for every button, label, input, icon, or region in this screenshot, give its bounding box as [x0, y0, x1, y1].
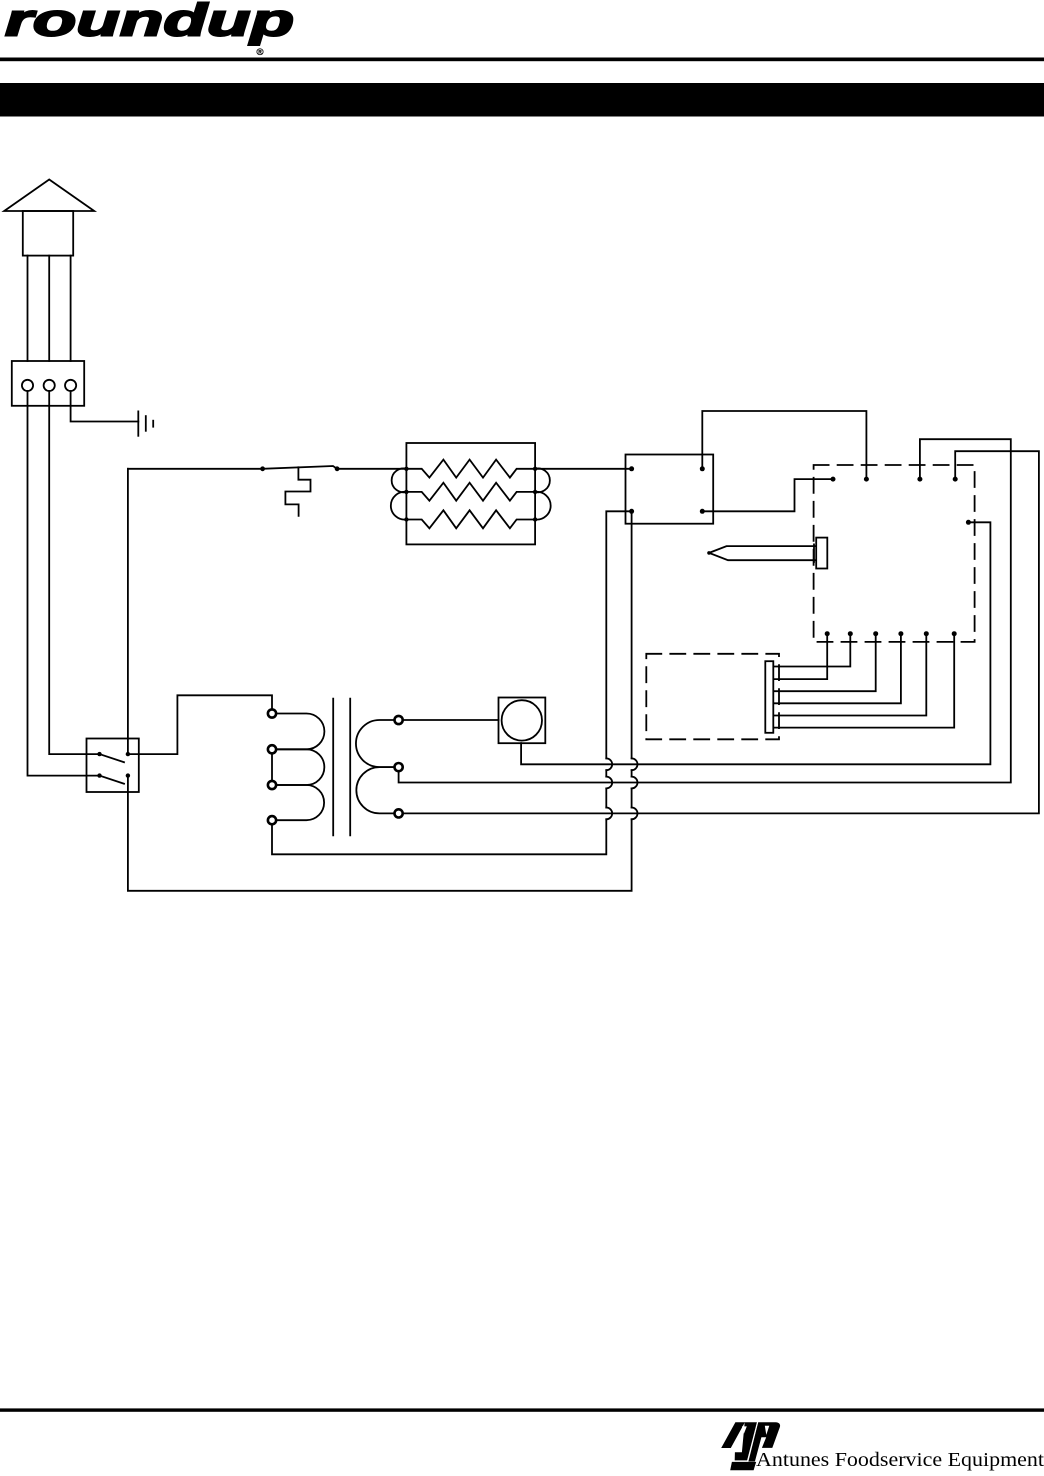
- node switch lower left: [97, 773, 101, 777]
- transformer core: [332, 699, 334, 836]
- wire switch to transformer primary: [128, 695, 272, 754]
- hop 2b: [632, 777, 638, 789]
- hi-limit step element: [285, 467, 310, 516]
- igniter mount: [816, 538, 827, 569]
- svg-text:Antunes Foodservice Equipment: Antunes Foodservice Equipment: [756, 1449, 1044, 1471]
- switch blade lower: [100, 776, 125, 784]
- heater right loop 2-3: [535, 492, 551, 520]
- wire fan to bus1: [521, 522, 990, 764]
- node board bottom 4: [898, 631, 903, 636]
- igniter blade: [709, 546, 816, 560]
- node board pin2: [864, 477, 869, 482]
- primary coil loop 1: [276, 714, 324, 750]
- heater element 2: [406, 483, 535, 501]
- node thermostat left: [260, 466, 265, 471]
- contactor K1 box: [626, 455, 714, 524]
- junction dots: [97, 466, 971, 778]
- node heater left row2: [404, 490, 408, 494]
- wire contactor BL left then down to transformer t4: [606, 511, 631, 758]
- hop 3a: [606, 808, 612, 820]
- plug wire 1: [27, 256, 29, 361]
- heater box: [406, 443, 535, 544]
- heater left loop 2-3: [391, 492, 407, 520]
- plug wire 3: [70, 256, 72, 361]
- board bottom pin 3 wire: [773, 634, 875, 692]
- title bar: [0, 83, 1044, 117]
- node board bottom 3: [873, 631, 878, 636]
- secondary coil loop 2: [356, 767, 394, 813]
- node board pin4: [953, 477, 958, 482]
- node heater right row2: [533, 490, 537, 494]
- wire L1 to switch: [28, 391, 100, 776]
- heater left loop 1-2: [392, 468, 407, 492]
- secondary coil loop 1: [356, 720, 395, 767]
- wire heater feed vertical: [127, 469, 129, 754]
- node heater left row1: [404, 467, 408, 471]
- gas valve dashed box: [646, 654, 779, 740]
- transformer T1 primary terminal rings: [268, 709, 276, 824]
- board bottom pin 4 wire: [773, 634, 901, 704]
- node contactor TR: [700, 466, 705, 471]
- node board pin1: [831, 477, 836, 482]
- primary coil loop 2: [276, 749, 324, 785]
- board bottom pin 1 wire: [773, 634, 827, 679]
- node board bottom 1: [825, 631, 830, 636]
- board bottom pin 5 wire: [773, 634, 926, 716]
- wire contactor TR up and over to board pin 2: [702, 411, 866, 479]
- node heater left row3: [404, 517, 408, 521]
- ground wire: [71, 391, 139, 422]
- node board bottom 2: [848, 631, 853, 636]
- switch blade upper: [100, 754, 125, 762]
- terminal block TB1: [12, 361, 84, 406]
- node contactor TL: [629, 466, 634, 471]
- primary jumper t2-t3: [271, 753, 273, 781]
- node contactor BR: [700, 509, 705, 514]
- wire heater to contactor: [535, 468, 632, 470]
- board bottom pin 2 wire: [773, 634, 850, 667]
- hop 1b: [632, 758, 638, 770]
- wire heater feed horizontal: [128, 468, 263, 470]
- wire secondary s2 to bus2: [399, 439, 1011, 782]
- node switch lower right: [126, 773, 130, 777]
- wire secondary s1 to fan: [403, 719, 499, 721]
- thermostat blade: [263, 466, 338, 469]
- control board dashed box: [814, 465, 975, 642]
- wire contactor BR to board pin 1: [702, 479, 833, 511]
- svg-text:®: ®: [257, 47, 264, 58]
- node heater right row3: [533, 517, 537, 521]
- hop 3b: [632, 808, 638, 820]
- roundup logo: [5, 0, 294, 58]
- plug cap triangle: [4, 180, 94, 212]
- Antunes AJA mark: [721, 1422, 780, 1471]
- svg-text:roundup: roundup: [5, 0, 294, 46]
- wire secondary s3 to bus3: [403, 451, 1039, 813]
- wire L2 to switch: [49, 391, 99, 754]
- plug wire 2: [48, 256, 50, 361]
- heater right loop 1-2: [535, 468, 550, 492]
- hop 2a: [606, 777, 612, 789]
- switch S1 box: [87, 739, 139, 793]
- fan motor box: [499, 698, 546, 744]
- valve connector: [765, 661, 773, 733]
- node board pin3: [917, 477, 922, 482]
- primary coil loop 3: [276, 785, 324, 820]
- board bottom pin 6 wire: [773, 634, 954, 728]
- igniter tip dot: [707, 551, 711, 555]
- plug body: [23, 211, 73, 256]
- node board bottom 6: [952, 631, 957, 636]
- heater element 1: [406, 460, 535, 478]
- header rule: [0, 58, 1044, 62]
- node contactor BL: [629, 509, 634, 514]
- node board bottom 5: [924, 631, 929, 636]
- fan motor circle: [502, 700, 542, 740]
- node board right: [966, 520, 971, 525]
- heater element 3: [406, 510, 535, 528]
- wire contactor BL down to bottom bus: [631, 511, 633, 758]
- ground symbol: [137, 411, 139, 435]
- node switch upper right: [126, 752, 130, 756]
- node thermostat right: [335, 466, 340, 471]
- hop 1a: [606, 758, 612, 770]
- footer rule: [0, 1408, 1044, 1411]
- node switch upper left: [97, 752, 101, 756]
- igniter flange: [813, 544, 815, 562]
- wire to heater: [337, 468, 406, 470]
- secondary terminal rings: [395, 716, 403, 818]
- node heater right row1: [533, 467, 537, 471]
